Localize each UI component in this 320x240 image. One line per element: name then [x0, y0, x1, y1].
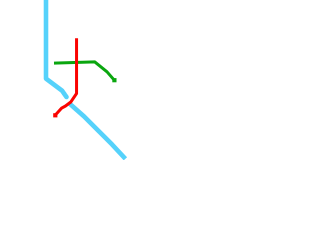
waterway river line upper segment (light blue) [46, 0, 65, 94]
green route line [54, 62, 114, 80]
green route end blob [112, 78, 116, 82]
red route end blob [53, 113, 57, 117]
map canvas [0, 0, 160, 160]
waterway upper segment rounded end [65, 94, 67, 97]
red route line [56, 38, 77, 115]
waterway river line lower segment (light blue) [69, 103, 125, 158]
